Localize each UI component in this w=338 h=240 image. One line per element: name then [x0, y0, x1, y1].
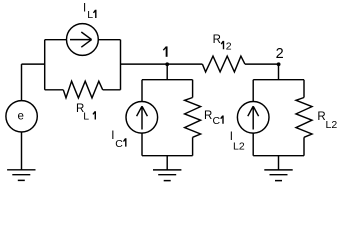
svg-text:e: e [18, 110, 24, 122]
wire e to ground [21, 132, 23, 170]
wire R_L2 to bottom bar [303, 137, 305, 155]
svg-text:I: I [111, 130, 114, 142]
box top wire (left of I_L1) [45, 39, 67, 41]
wire I_C1 to bottom bar [141, 133, 143, 156]
mid block top bar wire [142, 79, 193, 81]
ground (middle) [153, 170, 181, 181]
svg-text:L: L [83, 111, 89, 123]
svg-text:L2: L2 [326, 119, 338, 131]
mid block bottom bar wire [142, 155, 193, 157]
I_L2 arrow [248, 106, 259, 129]
wire node1 drop [166, 64, 168, 80]
voltage source e [6, 101, 37, 132]
svg-text:L2: L2 [233, 141, 245, 153]
node 1 junction dot [165, 62, 169, 66]
svg-text:C: C [213, 115, 221, 127]
right block bottom bar wire [253, 155, 304, 157]
svg-text:I: I [83, 3, 86, 15]
box right bar wire [120, 40, 122, 90]
resistor R_C1 [185, 98, 201, 138]
svg-text:C: C [115, 138, 123, 150]
wire node2 drop [278, 64, 280, 80]
box bottom wire (right of R_L1) [103, 89, 121, 91]
main bus wire from box to R12 [121, 63, 203, 65]
wire right ground stem [278, 156, 280, 170]
current source I_L1 [67, 24, 99, 56]
svg-text:2: 2 [226, 41, 232, 53]
node 2 junction dot [277, 62, 281, 66]
current source I_L2 [237, 102, 269, 134]
box top wire (right of I_L1) [98, 39, 120, 41]
current source I_C1 [126, 102, 158, 134]
right block top bar wire [253, 79, 304, 81]
resistor R_L2 [296, 98, 312, 138]
wire top bar to I_C1 [141, 80, 143, 102]
box left bar wire [44, 40, 46, 90]
wire I_L2 to bottom bar [252, 133, 254, 156]
wire mid ground stem [166, 156, 168, 170]
node label 1 [166, 46, 168, 56]
resistor R12 [202, 56, 245, 72]
box bottom wire (left of R_L1) [45, 89, 64, 91]
ground (left, under e) [7, 170, 35, 181]
wire e-source drop [21, 64, 23, 101]
svg-text:2: 2 [276, 46, 284, 62]
svg-text:R: R [213, 34, 221, 46]
wire top bar to R_C1 [192, 80, 194, 98]
wire R_C1 to bottom bar [192, 137, 194, 155]
I_C1 arrow [137, 106, 148, 129]
resistor R_L1 [63, 81, 102, 98]
bus wire R12 to node 2 [245, 63, 279, 65]
svg-text:R: R [204, 110, 212, 122]
svg-text:R: R [317, 111, 325, 123]
wire top bar to R_L2 [303, 80, 305, 98]
wire top bar to I_L2 [252, 80, 254, 102]
wire stub from source e to parallel box [22, 63, 45, 65]
ground (right) [264, 170, 292, 181]
I_L1 arrow [70, 32, 92, 47]
svg-text:L: L [87, 9, 93, 21]
